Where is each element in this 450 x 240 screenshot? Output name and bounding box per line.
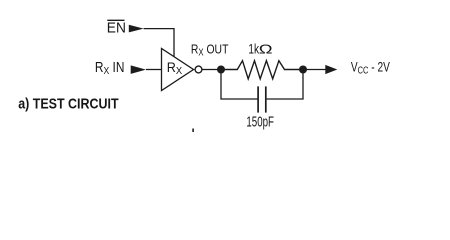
wire RX IN to inverter [146, 69, 162, 71]
wire EN to inverter top [144, 29, 174, 58]
output arrow to VCC-2V [325, 65, 337, 74]
overline of EN [107, 19, 124, 21]
svg-text:RX OUT: RX OUT [191, 42, 229, 57]
capacitor branch right wire [267, 72, 303, 99]
svg-text:a) TEST CIRCUIT: a) TEST CIRCUIT [18, 96, 119, 112]
svg-text:VCC - 2V: VCC - 2V [351, 59, 390, 76]
bottom edge tick mark [192, 129, 194, 133]
svg-text:Ω: Ω [259, 42, 273, 57]
node dot left [217, 66, 225, 74]
svg-text:150pF: 150pF [246, 114, 274, 130]
wire node to output arrow [306, 69, 326, 71]
input arrow EN [129, 25, 144, 33]
resistor R1 1k [224, 61, 300, 79]
capacitor C1 plate left [257, 86, 259, 112]
node dot right [299, 66, 307, 74]
capacitor C1 plate right [265, 86, 267, 112]
svg-text:EN: EN [107, 19, 126, 35]
inversion bubble [195, 66, 202, 73]
input arrow RX IN [131, 65, 146, 74]
wire bubble to node [202, 69, 218, 71]
capacitor branch left wire [221, 72, 258, 99]
inverter buffer U1 (RX) [162, 49, 194, 91]
svg-text:RX IN: RX IN [95, 59, 125, 77]
